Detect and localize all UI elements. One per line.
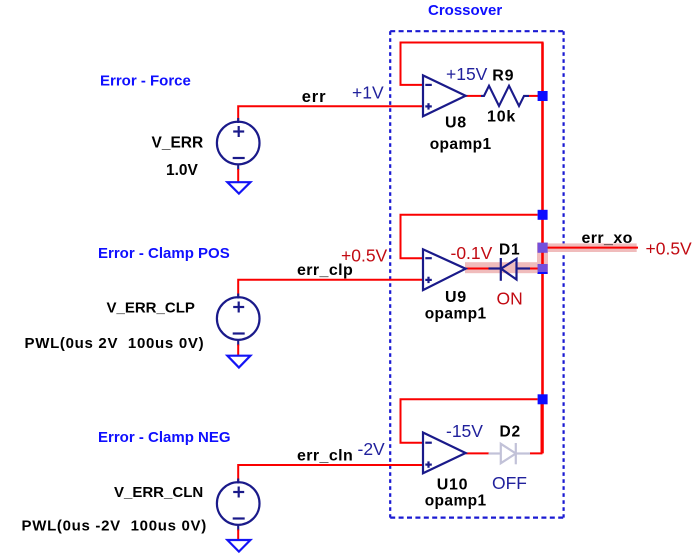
svg-text:Crossover: Crossover bbox=[428, 2, 502, 19]
wire V_ERR_CLP to ground bbox=[237, 345, 239, 356]
svg-text:-15V: -15V bbox=[446, 421, 483, 441]
net highlight err_xo band through D1 bbox=[465, 262, 548, 273]
svg-text:U9: U9 bbox=[445, 289, 467, 306]
svg-text:-0.1V: -0.1V bbox=[451, 243, 493, 263]
wire U10 feedback bbox=[401, 399, 538, 442]
svg-text:U8: U8 bbox=[445, 114, 467, 131]
diode D2 bbox=[489, 443, 531, 464]
wire U10 output to D2 bbox=[466, 452, 490, 454]
wire V_ERR to ground bbox=[237, 169, 239, 182]
wire err_xo output stub bbox=[543, 247, 639, 249]
svg-text:opamp1: opamp1 bbox=[425, 306, 487, 323]
wire V_ERR_CLN to ground bbox=[237, 530, 239, 540]
svg-text:U10: U10 bbox=[437, 477, 468, 494]
svg-text:+1V: +1V bbox=[352, 82, 384, 102]
svg-text:PWL(0us -2V 100us 0V): PWL(0us -2V 100us 0V) bbox=[22, 517, 207, 534]
svg-text:D1: D1 bbox=[499, 241, 520, 258]
svg-text:+0.5V: +0.5V bbox=[341, 246, 388, 266]
wire err_cln: source V_ERR_CLN to U10 + input bbox=[238, 465, 423, 482]
junction U9 feedback / bus bbox=[538, 210, 548, 220]
svg-text:V_ERR_CLN: V_ERR_CLN bbox=[114, 484, 203, 501]
svg-text:err_xo: err_xo bbox=[582, 230, 633, 247]
svg-text:+0.5V: +0.5V bbox=[646, 238, 693, 258]
wire err_clp: source V_ERR_CLP to U9 + input bbox=[238, 280, 423, 297]
voltage source V_ERR_CLN bbox=[217, 479, 260, 531]
svg-text:opamp1: opamp1 bbox=[425, 493, 487, 510]
svg-text:ON: ON bbox=[497, 289, 523, 309]
wire U9 feedback bbox=[401, 215, 538, 258]
voltage source V_ERR bbox=[217, 118, 260, 170]
diode D1 bbox=[489, 258, 531, 281]
svg-text:err: err bbox=[302, 88, 327, 106]
wire R9 to err_xo bus bbox=[529, 95, 543, 97]
ground below V_ERR_CLN bbox=[227, 540, 250, 552]
svg-text:Error - Force: Error - Force bbox=[100, 73, 191, 90]
voltage source V_ERR_CLP bbox=[217, 294, 260, 346]
svg-text:10k: 10k bbox=[487, 108, 516, 125]
op-amp U10 bbox=[423, 433, 466, 474]
net highlight err_xo vertical band bbox=[537, 243, 548, 275]
ground below V_ERR_CLP bbox=[227, 356, 250, 368]
svg-text:err_cln: err_cln bbox=[297, 447, 353, 464]
svg-text:opamp1: opamp1 bbox=[430, 136, 492, 153]
crossover boundary dashed box bbox=[390, 31, 563, 517]
wire U8 output to R9 bbox=[466, 95, 482, 97]
wire D2 to err_xo bus bbox=[530, 399, 542, 453]
net highlight err_xo output stub band bbox=[542, 243, 637, 252]
svg-text:PWL(0us 2V 100us 0V): PWL(0us 2V 100us 0V) bbox=[25, 335, 205, 352]
svg-text:Error - Clamp NEG: Error - Clamp NEG bbox=[98, 429, 231, 446]
svg-text:-2V: -2V bbox=[358, 439, 386, 459]
resistor R9 bbox=[481, 86, 529, 106]
svg-text:+15V: +15V bbox=[446, 64, 488, 84]
wire D1 to err_xo bus bbox=[517, 268, 543, 270]
highlight tint over err_xo junctions bbox=[538, 243, 548, 253]
svg-text:V_ERR_CLP: V_ERR_CLP bbox=[107, 300, 195, 317]
op-amp U8 bbox=[423, 75, 466, 116]
wire err: source V_ERR to U8 + input bbox=[238, 106, 423, 122]
junction D1 / bus bbox=[538, 264, 548, 274]
wire U8 feedback bbox=[401, 43, 543, 97]
svg-text:R9: R9 bbox=[492, 67, 514, 84]
ground below V_ERR bbox=[227, 182, 250, 193]
wire err_xo vertical bus bbox=[541, 43, 544, 454]
svg-text:1.0V: 1.0V bbox=[166, 162, 199, 179]
svg-text:D2: D2 bbox=[500, 423, 521, 440]
wire U9 output to D1 bbox=[466, 268, 501, 270]
junction U10 feedback / bus bbox=[538, 394, 548, 404]
junction R9 / err_xo bus bbox=[538, 91, 548, 101]
junction err_xo stub / bus bbox=[538, 243, 548, 253]
svg-text:Error - Clamp POS: Error - Clamp POS bbox=[98, 245, 230, 262]
svg-text:V_ERR: V_ERR bbox=[152, 135, 204, 152]
svg-text:OFF: OFF bbox=[492, 473, 527, 493]
op-amp U9 bbox=[423, 249, 466, 290]
